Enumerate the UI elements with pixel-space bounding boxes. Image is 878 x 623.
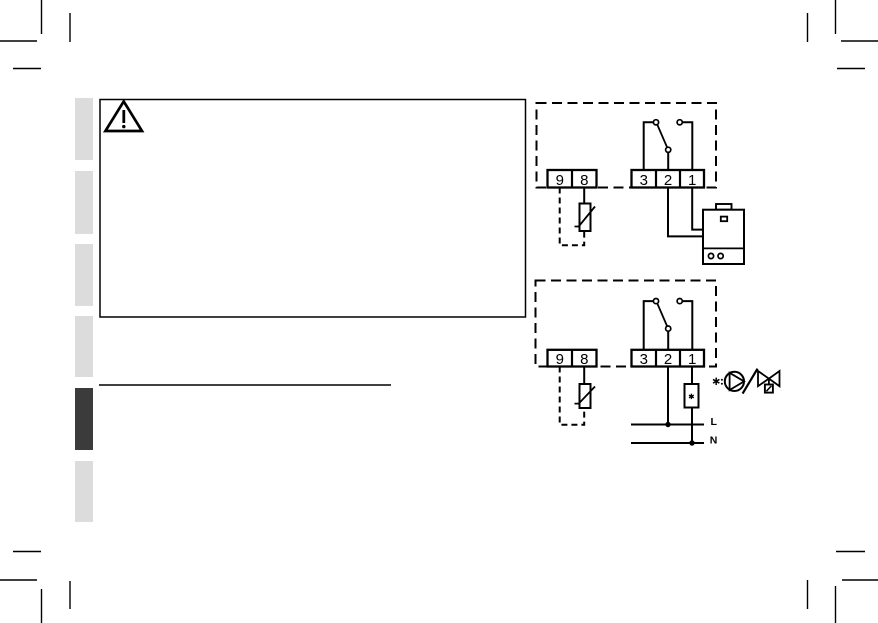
boiler symbol [703, 204, 744, 264]
switch fixed contact (terminal 1 side) [677, 120, 682, 125]
svg-text:3: 3 [640, 351, 648, 368]
switch common contact [666, 326, 671, 331]
left section tabs [75, 98, 93, 160]
svg-text:2: 2 [664, 351, 672, 368]
wire: load to N [691, 408, 693, 444]
N line [631, 442, 704, 444]
L line [631, 424, 704, 426]
temperature sensor RF1 (thermistor) [575, 204, 596, 232]
warning notice box [100, 100, 526, 318]
switch common contact [666, 147, 671, 152]
wire: terminal 2 to L [667, 367, 669, 425]
switch fixed contact (terminal 3 side) [653, 120, 658, 125]
wire: terminal 1 to switch contact [682, 301, 692, 350]
wire: terminal 3 to switch contact [644, 122, 654, 170]
pump symbol [725, 372, 744, 391]
svg-text:2: 2 [664, 172, 672, 189]
svg-text:1: 1 [688, 172, 696, 189]
svg-text:N: N [710, 435, 718, 447]
wire: terminal 8 to sensor [583, 367, 585, 385]
svg-text:9: 9 [556, 351, 564, 368]
junction dot on N [689, 440, 694, 445]
terminal block 3 2 1 (diagram 1) [632, 170, 705, 189]
warning triangle symbol [105, 101, 142, 131]
relay changeover switch S1 arm [657, 125, 667, 147]
terminal block 9 8 (diagram 1) [548, 170, 597, 189]
switch fixed contact (terminal 1 side) [677, 299, 682, 304]
junction dot on L [665, 422, 670, 427]
wire: switch common to terminal 2 [667, 152, 669, 170]
load * (pump/valve) [685, 384, 699, 408]
svg-text:3: 3 [640, 172, 648, 189]
wire: terminal 1 to switch contact [682, 122, 692, 170]
wire: terminal 3 to switch contact [644, 301, 654, 350]
wire: terminal 1 to boiler [692, 188, 703, 230]
svg-text:8: 8 [580, 172, 588, 189]
motorized valve symbol [758, 371, 780, 393]
temperature sensor RF2 (thermistor) [575, 384, 596, 408]
legend label *: [713, 378, 723, 385]
wire: terminal 2 to boiler [668, 188, 703, 237]
svg-text:L: L [711, 416, 718, 428]
terminal block 9 8 (diagram 2) [548, 350, 597, 368]
wire: terminal 9 to sensor (dashed) [560, 367, 585, 425]
wire: terminal 8 to sensor [583, 188, 585, 204]
terminal block 3 2 1 (diagram 2) [632, 350, 705, 368]
svg-text:9: 9 [556, 172, 564, 189]
switch fixed contact (terminal 3 side) [653, 299, 658, 304]
svg-text:1: 1 [688, 351, 696, 368]
separator slash [743, 369, 758, 394]
svg-text:8: 8 [580, 351, 588, 368]
controller dashed enclosure D1 [537, 103, 717, 188]
relay changeover switch S2 arm [657, 304, 667, 326]
wire: terminal 1 to load [691, 367, 693, 385]
wire: terminal 9 to sensor (dashed) [560, 188, 585, 246]
controller dashed enclosure D2 [536, 281, 717, 367]
wire: switch common to terminal 2 [667, 331, 669, 350]
section divider rule [99, 384, 391, 386]
